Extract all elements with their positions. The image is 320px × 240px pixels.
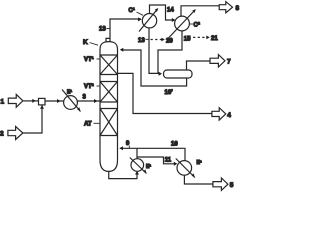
product 4 block arrow: [212, 108, 226, 120]
svg-text:11: 11: [165, 158, 172, 164]
product 5 block arrow: [213, 178, 228, 190]
svg-text:VT²: VT²: [84, 83, 94, 90]
cooler E3: [177, 161, 192, 176]
packing box VT2: [100, 82, 118, 103]
stream 7 line: [187, 61, 211, 70]
stream 4 side draw line: [118, 73, 213, 113]
feed stream 2 block arrow: [8, 127, 23, 140]
column K shell: [100, 42, 118, 172]
stream 1 line: [23, 100, 38, 102]
stream 14 line: [150, 5, 175, 20]
stream 2 line: [23, 105, 42, 133]
reflux drum 16: [164, 70, 193, 78]
svg-text:16’: 16’: [165, 90, 174, 96]
svg-text:1: 1: [1, 98, 5, 105]
E2 top line: [136, 148, 138, 158]
condenser C1: [142, 14, 156, 28]
heater E1: [64, 96, 78, 110]
svg-text:21: 21: [211, 36, 218, 42]
svg-text:E²: E²: [197, 160, 202, 166]
column top nozzle: [106, 38, 110, 41]
condenser C2: [175, 16, 190, 31]
svg-text:2: 2: [0, 131, 4, 138]
stream 8 line: [181, 6, 219, 16]
svg-text:13: 13: [138, 38, 145, 44]
svg-text:E¹: E¹: [67, 90, 72, 96]
product 7 block arrow: [210, 55, 225, 67]
stream 13 line: [110, 19, 141, 42]
stream 15 line: [158, 31, 182, 74]
packing box AT: [100, 109, 118, 136]
reflux line from drum bottom to dome: [121, 50, 186, 86]
svg-text:8: 8: [236, 5, 240, 12]
product 8 block arrow: [219, 2, 232, 13]
svg-text:C²: C²: [194, 22, 200, 29]
stream 9 line: [120, 148, 185, 160]
svg-text:VT¹: VT¹: [84, 56, 94, 63]
svg-text:14: 14: [167, 7, 174, 13]
mixer square: [39, 98, 46, 105]
svg-text:13: 13: [99, 26, 106, 32]
svg-text:20: 20: [166, 38, 173, 44]
reboiler E2: [131, 159, 144, 172]
svg-text:E¹: E¹: [146, 164, 151, 170]
stream 11 line: [137, 157, 176, 164]
bottoms line: [109, 171, 137, 178]
stream 3 line: [77, 100, 100, 102]
stream 5 line: [184, 175, 212, 184]
svg-text:3: 3: [83, 95, 87, 101]
C1 condensate line to drum: [149, 28, 161, 74]
packing box VT1: [100, 55, 118, 75]
line into heater: [45, 100, 64, 102]
feed stream 1 block arrow: [8, 94, 23, 107]
svg-text:7: 7: [227, 58, 231, 65]
svg-text:AT: AT: [84, 122, 92, 128]
svg-text:10: 10: [171, 142, 178, 148]
dashed 15 to 21: [189, 36, 208, 38]
svg-text:4: 4: [227, 112, 231, 119]
svg-text:C¹: C¹: [129, 7, 135, 14]
svg-text:K: K: [83, 39, 88, 46]
svg-text:5: 5: [230, 182, 234, 189]
